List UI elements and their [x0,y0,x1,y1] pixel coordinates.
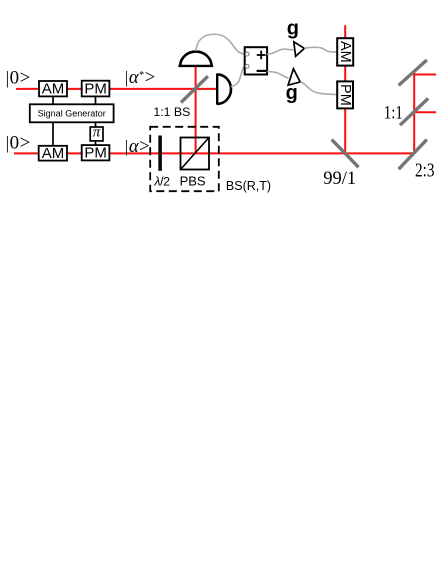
svg-text:λ/2: λ/2 [153,175,170,189]
svg-text:π: π [93,125,101,141]
beamsplitter 1:1 right [400,98,428,125]
modulator AM right (rotated) [337,38,353,65]
modulator AM2 [39,145,67,162]
wire: vertical beam dome detector to PBS [195,66,197,153]
svg-text:PM: PM [84,81,107,98]
detector dome (top) [178,52,213,66]
wire: signal generator to AM2 [52,122,54,146]
gray wire: dome detector to subtractor top input [196,34,245,54]
svg-text:AM: AM [42,145,65,162]
modulator AM1 [39,81,67,98]
modulator PM1 [82,81,110,98]
amplifier g top [294,42,305,57]
wire: output beam middle right [413,111,436,113]
beamsplitter 2:3 [399,140,427,170]
svg-text:|0>: |0> [6,132,31,153]
wire: pi box to PM2 [95,141,97,145]
wire: bottom beam rail [14,152,414,154]
wire: vertical beam right mirror column [413,73,415,154]
svg-text:1:1 BS: 1:1 BS [153,105,190,119]
beamsplitter 1:1 BS [181,76,208,102]
wire: vertical beam through right AM PM [344,25,346,152]
gray wire: subtractor to top amp [267,49,294,54]
wire: top beam rail [16,88,217,90]
svg-text:|α>: |α> [125,137,150,157]
svg-text:BS(R,T): BS(R,T) [226,179,271,193]
svg-text:2:3: 2:3 [415,159,435,181]
subtractor box with + and - [245,47,267,74]
svg-text:Signal Generator: Signal Generator [38,108,106,118]
wire: PM1 to signal generator [95,96,97,104]
svg-text:1:1: 1:1 [384,102,403,123]
gray wire: subtractor to bottom amp [267,71,288,78]
gray wire: bottom amp to PM [301,82,338,95]
gray wire: D detector to subtractor bottom input [231,66,245,87]
svg-text:PBS: PBS [180,174,206,189]
gray wire: top amp to AM [304,47,337,52]
svg-text:PM: PM [84,145,107,162]
signal generator box [30,104,114,122]
svg-text:PM: PM [337,84,353,106]
svg-text:|0>: |0> [6,68,31,89]
amplifier g bottom [288,69,300,86]
modulator PM2 [82,145,110,162]
modulator PM right (rotated) [337,81,353,108]
svg-text:AM: AM [337,41,353,63]
wire: output beam top right [413,74,436,76]
svg-text:99/1: 99/1 [323,169,356,189]
dashed box BS(R,T) [150,127,219,191]
PBS cube [181,138,210,170]
waveplate lambda/2 [158,136,162,171]
svg-text:g: g [287,18,299,40]
wire: AM1 to signal generator [52,96,54,104]
pi phase box [90,125,103,141]
svg-text:g: g [286,82,298,104]
mirror top right [399,60,427,85]
beamsplitter 99/1 [332,140,359,168]
wire: signal generator to pi box [95,122,97,127]
svg-text:AM: AM [42,81,65,98]
detector D (right of BS) [217,74,231,105]
